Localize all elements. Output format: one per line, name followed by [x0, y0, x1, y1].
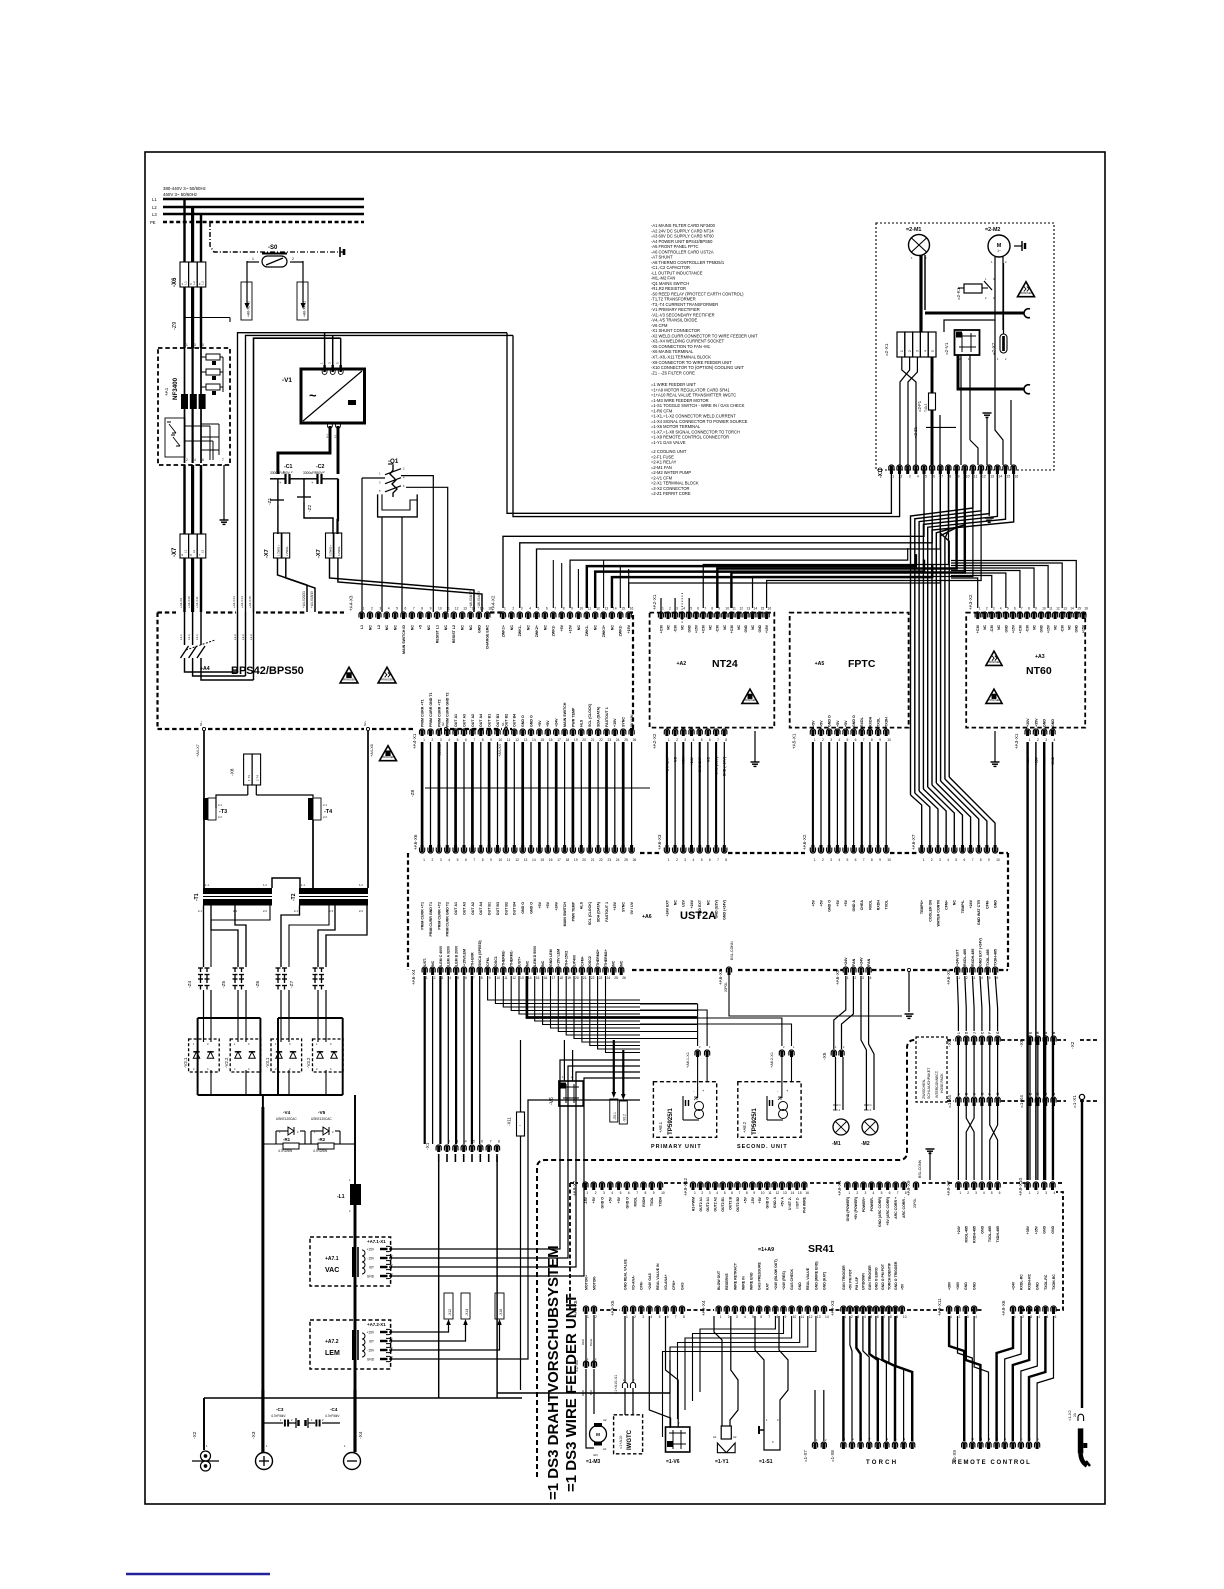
- svg-text:GAS CHECK: GAS CHECK: [790, 1269, 794, 1290]
- NF3400 choke cores (black): [181, 394, 188, 409]
- svg-text:7: 7: [863, 858, 865, 862]
- svg-text:+C30: +C30: [702, 625, 706, 633]
- svg-text:BPS42/BPS50: BPS42/BPS50: [231, 665, 304, 677]
- thermo controller +A8.2 (dashed box): [738, 1082, 801, 1138]
- svg-text:FASTOUT 1: FASTOUT 1: [605, 902, 609, 922]
- svg-text:REMOTE CONTROL: REMOTE CONTROL: [952, 1460, 1031, 1466]
- T2 secondary wires to -Z6/-Z7: [281, 906, 300, 968]
- svg-text:+36V: +36V: [948, 1281, 952, 1290]
- svg-text:2: 2: [986, 607, 988, 611]
- svg-text:GND O TRIGGER: GND O TRIGGER: [894, 1261, 898, 1290]
- svg-text:2: 2: [292, 257, 294, 261]
- svg-text:1: 1: [1029, 738, 1031, 742]
- svg-text:-Z6: -Z6: [255, 980, 261, 988]
- svg-text:=2-M1: =2-M1: [906, 227, 921, 233]
- svg-text:ZWISCHEN-: ZWISCHEN-: [922, 1078, 926, 1099]
- svg-text:2: 2: [1037, 1191, 1039, 1195]
- svg-text:TP5925/1: TP5925/1: [751, 1108, 758, 1135]
- svg-text:+A4-X10: +A4-X10: [187, 596, 191, 608]
- svg-text:VD-ANA-: VD-ANA-: [632, 1274, 636, 1290]
- warning triangle prim/sek 2: [378, 667, 396, 683]
- svg-text:BLUE: BLUE: [589, 1339, 593, 1346]
- svg-text:4: 4: [448, 738, 450, 742]
- svg-text:14: 14: [613, 607, 617, 611]
- svg-text:1: 1: [186, 343, 188, 347]
- svg-text:+24V: +24V: [844, 957, 848, 966]
- svg-text:2 T4: 2 T4: [256, 775, 260, 781]
- wires VAC to right: [389, 1060, 640, 1249]
- svg-text:GND EXT: GND EXT: [698, 899, 702, 916]
- svg-text:3: 3: [441, 976, 443, 980]
- svg-text:16: 16: [549, 738, 553, 742]
- svg-text:FASTOUT 1: FASTOUT 1: [605, 707, 609, 727]
- wire Z1 to -X7 ZWK1+: [277, 505, 279, 534]
- svg-text:-C30: -C30: [716, 625, 720, 632]
- svg-text:3: 3: [967, 1315, 969, 1319]
- svg-text:+A7.2-X1: +A7.2-X1: [367, 1322, 386, 1327]
- svg-text:RXDL-485: RXDL-485: [963, 949, 967, 966]
- wire =2-M1 down (thick pair): [919, 255, 922, 332]
- wire -S0 pin1 down: [246, 261, 248, 305]
- wires NF3400 to -X7: [183, 465, 185, 534]
- wires +A6-X9 down to -X9: [957, 976, 958, 1031]
- svg-text:-A2 24V DC SUPPLY CARD NT24: -A2 24V DC SUPPLY CARD NT24: [651, 228, 714, 233]
- svg-text:-M1: -M1: [832, 1141, 841, 1147]
- svg-text:VAC: VAC: [325, 1267, 339, 1274]
- svg-text:NC: NC: [431, 960, 435, 966]
- svg-text:=1-X6 MOTOR TERMINAL: =1-X6 MOTOR TERMINAL: [651, 424, 701, 429]
- svg-text:+24V: +24V: [555, 718, 559, 727]
- svg-text:9: 9: [653, 1191, 655, 1195]
- svg-text:7: 7: [739, 1191, 741, 1195]
- wire C1+ down: [277, 479, 279, 500]
- svg-text:5: 5: [690, 607, 692, 611]
- svg-text:+A5: +A5: [815, 661, 825, 667]
- svg-text:9: 9: [430, 607, 432, 611]
- svg-text:13: 13: [524, 858, 528, 862]
- svg-text:(-): (-): [333, 435, 337, 438]
- svg-text:1: 1: [848, 1191, 850, 1195]
- svg-text:25: 25: [614, 976, 618, 980]
- svg-text:=1+A10-X1: =1+A10-X1: [614, 1375, 618, 1394]
- svg-text:TXDL: TXDL: [650, 1196, 654, 1206]
- earth at =2-M2: [1014, 245, 1022, 247]
- svg-text:1: 1: [423, 858, 425, 862]
- svg-text:3: 3: [676, 607, 678, 611]
- svg-text:-X2 WELD.CURR.CONNECTOR TO WI: -X2 WELD.CURR.CONNECTOR TO WIRE FEEDER U…: [651, 333, 758, 338]
- svg-text:+A4-X6: +A4-X6: [370, 744, 374, 757]
- svg-text:NC: NC: [620, 960, 624, 966]
- svg-text:10: 10: [1042, 607, 1046, 611]
- svg-text:13: 13: [524, 738, 528, 742]
- svg-text:+A8.2: +A8.2: [742, 1121, 747, 1133]
- svg-text:5: 5: [989, 976, 991, 980]
- NF3400 internal wires: [184, 348, 186, 463]
- svg-text:+A9-X1: +A9-X1: [837, 1180, 842, 1196]
- svg-text:1.2: 1.2: [359, 883, 363, 887]
- wire -V1 DC output -: [336, 423, 341, 428]
- svg-text:+24V: +24V: [1011, 1281, 1015, 1290]
- svg-text:2: 2: [967, 1191, 969, 1195]
- svg-text:4: 4: [873, 1191, 875, 1195]
- svg-text:GND: GND: [758, 624, 762, 632]
- svg-text:-15V: -15V: [584, 1196, 588, 1204]
- svg-text:KAT: KAT: [766, 1282, 770, 1290]
- svg-text:7: 7: [636, 1191, 638, 1195]
- svg-text:GND: GND: [1036, 1282, 1040, 1290]
- svg-text:8: 8: [725, 858, 727, 862]
- svg-text:14: 14: [791, 1191, 795, 1195]
- wires into -X10 right pins: [995, 320, 1003, 465]
- svg-text:OUT A2: OUT A2: [471, 714, 475, 727]
- svg-text:-Z1 - -Z6 FILTER CORE: -Z1 - -Z6 FILTER CORE: [651, 370, 695, 375]
- svg-text:1: 1: [504, 607, 506, 611]
- svg-text:11: 11: [446, 607, 450, 611]
- svg-text:26: 26: [633, 858, 637, 862]
- svg-text:PWR TEMP: PWR TEMP: [571, 707, 575, 727]
- svg-text:+A4-X9: +A4-X9: [179, 598, 183, 608]
- svg-text:2: 2: [448, 1140, 450, 1144]
- svg-text:-Q1 MAINS SWITCH: -Q1 MAINS SWITCH: [651, 281, 689, 286]
- svg-text:+15V: +15V: [1082, 624, 1086, 633]
- svg-text:GUN TRIGGER: GUN TRIGGER: [868, 1265, 872, 1290]
- svg-text:NC: NC: [577, 625, 581, 631]
- svg-text:SR41: SR41: [808, 1243, 834, 1255]
- svg-text:14: 14: [532, 738, 536, 742]
- svg-text:6: 6: [697, 607, 699, 611]
- svg-text:=1-Y1: =1-Y1: [715, 1459, 729, 1465]
- svg-text:OUT B1: OUT B1: [488, 902, 492, 915]
- svg-text:NC: NC: [674, 900, 678, 906]
- svg-text:13: 13: [990, 474, 994, 478]
- svg-text:1: 1: [958, 976, 960, 980]
- svg-text:+A6-X4 22: +A6-X4 22: [303, 301, 307, 317]
- svg-text:3: 3: [993, 607, 995, 611]
- svg-text:3: 3: [862, 976, 864, 980]
- hose pack label box (dashed): [916, 1037, 947, 1102]
- svg-text:NC: NC: [368, 625, 372, 631]
- wire -S0 pin2 down: [302, 261, 304, 305]
- svg-text:-S0.1: -S0.1: [613, 1112, 617, 1120]
- svg-text:SYNC: SYNC: [622, 717, 626, 727]
- svg-text:GAS: GAS: [680, 1282, 684, 1290]
- svg-text:SDA (DATA): SDA (DATA): [597, 901, 601, 922]
- svg-text:1: 1: [923, 858, 925, 862]
- svg-text:5: 5: [931, 350, 935, 352]
- svg-text:=2-Z1 FERRIT CORE: =2-Z1 FERRIT CORE: [651, 491, 691, 496]
- svg-text:11: 11: [801, 1315, 805, 1319]
- svg-text:5: 5: [1007, 607, 1009, 611]
- svg-text:3: 3: [736, 1315, 738, 1319]
- svg-text:+15V: +15V: [1011, 624, 1015, 633]
- svg-text:4: 4: [917, 474, 919, 478]
- svg-text:+A7.1: +A7.1: [325, 1256, 339, 1262]
- svg-text:+A9-X3: +A9-X3: [830, 1300, 835, 1316]
- svg-text:5: 5: [1046, 1315, 1048, 1319]
- warning triangle (cooling): [1018, 282, 1035, 297]
- switched mains loop L1.2/L2.2/L3.2 up to -V1 (nested horizontals): [238, 333, 508, 612]
- svg-text:THERM1+: THERM1+: [604, 949, 608, 966]
- svg-text:12: 12: [1056, 607, 1060, 611]
- svg-text:4: 4: [388, 607, 390, 611]
- svg-text:CFM-: CFM-: [486, 956, 490, 966]
- wire to ZWK2+: [328, 479, 330, 534]
- wire +A4-X7 pin to T3: [203, 731, 205, 798]
- wire =2-M2 down: [994, 257, 996, 310]
- svg-text:+15V: +15V: [366, 1331, 374, 1335]
- svg-text:1: 1: [426, 976, 428, 980]
- svg-text:ZWK2-: ZWK2-: [619, 624, 623, 636]
- wire L2: [163, 206, 364, 208]
- series link T1 1.2 to T2 1.1: [272, 878, 300, 888]
- svg-text:PRIM/SEK: PRIM/SEK: [343, 677, 356, 681]
- svg-text:11: 11: [768, 1191, 772, 1195]
- svg-text:1: 1: [814, 738, 816, 742]
- svg-text:15: 15: [1077, 607, 1081, 611]
- svg-text:+15V: +15V: [695, 624, 699, 633]
- svg-text:REAL VALUE IN: REAL VALUE IN: [656, 1263, 660, 1290]
- svg-text:6: 6: [405, 607, 407, 611]
- svg-text:GND: GND: [973, 1282, 977, 1290]
- svg-text:PRIM CURR GND T2: PRIM CURR GND T2: [446, 902, 450, 937]
- svg-text:GND O: GND O: [521, 715, 525, 727]
- svg-text:8: 8: [683, 1315, 685, 1319]
- svg-text:NC: NC: [612, 960, 616, 966]
- svg-text:NC: NC: [681, 624, 685, 629]
- wire feeder =1 DS3 (dashed box): [537, 1040, 915, 1477]
- svg-text:+A8.2-X1: +A8.2-X1: [770, 1052, 774, 1068]
- svg-text:3: 3: [857, 1315, 859, 1319]
- svg-text:2: 2: [959, 1315, 961, 1319]
- svg-text:+5V PM POT: +5V PM POT: [848, 1268, 852, 1290]
- svg-text:HOSE PACK: HOSE PACK: [940, 1073, 944, 1093]
- svg-text:-X9: -X9: [1019, 1039, 1025, 1047]
- svg-text:BSL-CONN: BSL-CONN: [918, 1159, 922, 1178]
- svg-text:2: 2: [854, 976, 856, 980]
- svg-text:-T3,-T4 CURRENT TRANSFORMER: -T3,-T4 CURRENT TRANSFORMER: [651, 302, 718, 307]
- svg-text:+5V: +5V: [758, 1196, 762, 1203]
- svg-text:3: 3: [830, 738, 832, 742]
- svg-text:-X12: -X12: [448, 1309, 452, 1316]
- svg-text:3: 3: [603, 1191, 605, 1195]
- svg-text:2: 2: [186, 458, 188, 462]
- svg-text:4: 4: [975, 1315, 977, 1319]
- svg-text:5: 5: [955, 858, 957, 862]
- svg-text:2: 2: [1037, 738, 1039, 742]
- svg-text:4: 4: [983, 1191, 985, 1195]
- svg-text:BLOW OUT: BLOW OUT: [717, 1270, 721, 1290]
- svg-text:GUN TRIGGER: GUN TRIGGER: [842, 1265, 846, 1290]
- svg-text:3: 3: [379, 607, 381, 611]
- svg-text:22: 22: [591, 976, 595, 980]
- svg-text:-X10 CONNECTOR TO (OPTION) CO: -X10 CONNECTOR TO (OPTION) COOLING UNIT: [651, 365, 745, 370]
- svg-text:L3.1: L3.1: [195, 634, 199, 640]
- svg-text:PRIM CURR +T2: PRIM CURR +T2: [437, 699, 441, 727]
- svg-text:OUT B2: OUT B2: [504, 714, 508, 727]
- reed contact boxes -S0.1 -S0.2: [610, 1099, 618, 1122]
- svg-text:+5V: +5V: [844, 899, 848, 906]
- svg-text:LEM C 4000: LEM C 4000: [439, 946, 443, 966]
- wire -V1 DC output +: [328, 423, 333, 428]
- ground pin on UST2A bottom: [907, 968, 910, 971]
- wire to C hook (lower): [958, 355, 1024, 389]
- svg-text:-X2: -X2: [1070, 1041, 1076, 1049]
- wire -V1 AC input stubs: [324, 333, 326, 367]
- svg-text:10: 10: [887, 858, 891, 862]
- rectifier bridge frame V2: [197, 1018, 199, 1095]
- svg-text:-V6: -V6: [549, 1097, 555, 1105]
- svg-text:+A1: +A1: [164, 387, 169, 396]
- svg-text:-T4: -T4: [324, 809, 332, 815]
- shunt amplifier +A7.1 VAC (dashed box): [310, 1237, 391, 1286]
- svg-text:9: 9: [489, 976, 491, 980]
- svg-text:IWGTC: IWGTC: [627, 1429, 633, 1450]
- svg-text:-C4: -C4: [330, 1407, 338, 1412]
- svg-text:GND: GND: [798, 1282, 802, 1290]
- svg-text:+A4-X11: +A4-X11: [195, 596, 199, 608]
- svg-text:12: 12: [776, 1191, 780, 1195]
- svg-text:=2-X1 TERMINAL BLOCK: =2-X1 TERMINAL BLOCK: [651, 481, 699, 486]
- svg-text:8: 8: [949, 474, 951, 478]
- svg-text:BLK 2: BLK 2: [864, 1108, 872, 1112]
- svg-text:=1-X4 SIGNAL CONNECTOR TO POW: =1-X4 SIGNAL CONNECTOR TO POWER SOURCE: [651, 419, 748, 424]
- svg-text:NC: NC: [610, 625, 614, 631]
- svg-text:3: 3: [709, 1191, 711, 1195]
- svg-text:OUT2 A1: OUT2 A1: [699, 1197, 703, 1212]
- wires -X7 to +A4 inputs L1.1 L2.1 L3.1: [183, 558, 185, 612]
- svg-text:10: 10: [966, 474, 970, 478]
- destination arrows -X12 -X14 -X16: [444, 1293, 453, 1319]
- svg-text:5: 5: [847, 858, 849, 862]
- svg-text:13: 13: [747, 607, 751, 611]
- svg-text:12: 12: [982, 474, 986, 478]
- svg-text:+A9-X2: +A9-X2: [572, 1180, 577, 1196]
- svg-text:GND O: GND O: [828, 715, 832, 727]
- svg-text:+A4-X1: +A4-X1: [412, 733, 417, 749]
- svg-text:7: 7: [675, 1315, 677, 1319]
- svg-text:OUT B2: OUT B2: [504, 902, 508, 915]
- svg-text:-Z9: -Z9: [172, 322, 178, 330]
- svg-text:=1 WIRE FEEDER UNIT: =1 WIRE FEEDER UNIT: [651, 382, 696, 387]
- svg-text:TXDH-485: TXDH-485: [994, 949, 998, 966]
- svg-text:13: 13: [783, 1191, 787, 1195]
- svg-text:1: 1: [626, 1315, 628, 1319]
- svg-text:22: 22: [599, 738, 603, 742]
- svg-text:+5V: +5V: [538, 720, 542, 727]
- wires +A3-X1 down right side (4): [1026, 742, 1028, 1180]
- svg-text:1: 1: [252, 257, 254, 261]
- svg-text:HLS: HLS: [580, 719, 584, 727]
- svg-text:6: 6: [1014, 607, 1016, 611]
- VAC transformer symbol: [352, 1247, 356, 1277]
- wires +A5-X1 to +A6-X2: [812, 742, 814, 847]
- svg-text:OUT B4: OUT B4: [513, 714, 517, 727]
- svg-text:8: 8: [871, 738, 873, 742]
- svg-text:9: 9: [718, 607, 720, 611]
- svg-text:11: 11: [732, 607, 736, 611]
- svg-text:GND: GND: [477, 625, 481, 633]
- svg-text:+A9-X8: +A9-X8: [573, 1300, 578, 1316]
- svg-text:2: 2: [634, 1315, 636, 1319]
- stub wires into +A3-X2 pins: [951, 578, 978, 608]
- svg-text:GND O: GND O: [766, 1197, 770, 1209]
- svg-text:16: 16: [1084, 607, 1088, 611]
- svg-text:-V2.1: -V2.1: [183, 1057, 188, 1068]
- svg-text:=2-K1 RELAY: =2-K1 RELAY: [651, 460, 677, 465]
- svg-text:14: 14: [528, 976, 532, 980]
- NF3400 varistors: [165, 418, 185, 457]
- svg-text:10: 10: [761, 1191, 765, 1195]
- svg-text:=2-M2: =2-M2: [985, 227, 1000, 233]
- svg-text:1: 1: [959, 1191, 961, 1195]
- svg-text:5: 5: [473, 1140, 475, 1144]
- svg-text:=1 DS3 WIRE FEEDER UNIT: =1 DS3 WIRE FEEDER UNIT: [563, 1294, 580, 1492]
- svg-text:=1+A9: =1+A9: [758, 1247, 774, 1253]
- svg-text:-X1: -X1: [425, 1142, 431, 1150]
- svg-text:14: 14: [754, 607, 758, 611]
- svg-text:THERM2-: THERM2-: [502, 949, 506, 966]
- svg-text:21: 21: [591, 858, 595, 862]
- NF3400 earth ties: [201, 423, 219, 425]
- svg-text:5: 5: [991, 1191, 993, 1195]
- svg-text:-X11: -X11: [506, 1116, 511, 1126]
- svg-text:-X7: -X7: [316, 549, 322, 558]
- svg-text:16: 16: [1015, 474, 1019, 478]
- svg-text:7: 7: [554, 607, 556, 611]
- svg-text:7: 7: [863, 738, 865, 742]
- svg-text:-V2,-V3 SECONDARY RECTIFIER: -V2,-V3 SECONDARY RECTIFIER: [651, 312, 715, 317]
- ground above -X10 pin13: [983, 412, 992, 414]
- svg-text:L1: L1: [152, 197, 157, 202]
- svg-text:8: 8: [725, 738, 727, 742]
- svg-text:4: 4: [1038, 1315, 1040, 1319]
- svg-text:4: 4: [981, 976, 983, 980]
- svg-text:-A3 60V DC SUPPLY CARD NT60: -A3 60V DC SUPPLY CARD NT60: [651, 234, 714, 239]
- svg-text:+5V: +5V: [609, 1196, 613, 1203]
- wire C mid down via Z2: [303, 479, 305, 497]
- main switch contacts inside +A4: [184, 612, 186, 645]
- svg-text:23: 23: [608, 738, 612, 742]
- svg-text:GND O: GND O: [625, 1197, 629, 1209]
- svg-text:-V1 PRIMARY RECTIFIER: -V1 PRIMARY RECTIFIER: [651, 307, 700, 312]
- svg-text:5: 5: [620, 1191, 622, 1195]
- svg-text:1: 1: [892, 474, 894, 478]
- svg-text:6: 6: [628, 1191, 630, 1195]
- svg-text:2: 2: [851, 1315, 853, 1319]
- svg-text:1: 1: [814, 858, 816, 862]
- svg-text:4: 4: [529, 607, 531, 611]
- svg-text:L2: L2: [152, 205, 157, 210]
- svg-text:3: 3: [456, 1140, 458, 1144]
- svg-text:L2: L2: [377, 625, 381, 629]
- svg-text:IST: IST: [369, 1266, 374, 1270]
- svg-text:-T2: -T2: [291, 893, 297, 901]
- wire =2-X2 up to M2: [1003, 263, 1005, 334]
- wires =1-X4 down with crossover to +A9-X7: [957, 1106, 959, 1180]
- controller +A6 UST2A (dashed box): [407, 853, 409, 970]
- svg-text:8: 8: [1028, 607, 1030, 611]
- svg-text:8: 8: [421, 607, 423, 611]
- svg-text:+A3-X1: +A3-X1: [1014, 733, 1019, 749]
- svg-text:RXDL: RXDL: [634, 1196, 638, 1206]
- svg-text:=1+A9 MOTOR REGULATOR CARD SR: =1+A9 MOTOR REGULATOR CARD SR41: [651, 387, 730, 392]
- svg-text:GND LEM: GND LEM: [549, 949, 553, 966]
- svg-text:GND (U2V): GND (U2V): [715, 899, 719, 918]
- svg-text:-X5 CONNECTION TO FAN -M1: -X5 CONNECTION TO FAN -M1: [651, 344, 711, 349]
- svg-text:=2-M2 WATER PUMP: =2-M2 WATER PUMP: [651, 470, 691, 475]
- svg-text:4: 4: [448, 858, 450, 862]
- svg-text:9: 9: [490, 858, 492, 862]
